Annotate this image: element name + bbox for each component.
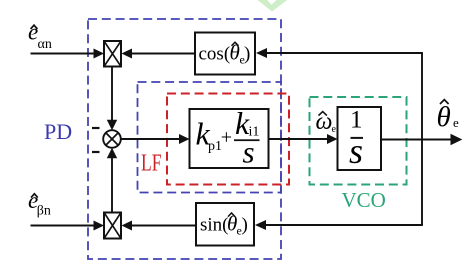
minus sign top [92,127,100,129]
wire feedback top to cos [256,48,423,58]
svg-text:s: s [243,135,255,170]
multiplier M2 (bottom mixer) [104,213,121,239]
svg-text:sin(: sin( [200,215,229,236]
svg-text:cos(: cos( [199,44,231,65]
input label e_alpha_n [28,20,52,52]
block LF kp1+ki1/s [190,105,269,170]
svg-text:1: 1 [350,107,363,134]
wire input beta [31,221,105,231]
box PD inner (blue dashed) [138,82,282,193]
block cos [195,33,255,75]
svg-text:e: e [453,115,459,130]
wire input alpha [31,49,105,59]
svg-text:LF: LF [141,151,162,177]
label LF [141,151,162,177]
wire LF to integrator [269,134,338,144]
svg-text:e: e [332,124,337,135]
summing junction [103,130,121,148]
block sin [196,203,254,246]
wire cos to M1 [122,49,196,59]
wire output [381,134,462,145]
box PD (outer blue dashed) [88,19,281,259]
svg-text:αn: αn [38,37,52,52]
multiplier M1 (top mixer) [104,41,121,67]
box LF (red dashed) [167,94,289,185]
wire M1 to summer [107,67,117,131]
input label e_beta_n [28,188,51,219]
watermark check [256,0,288,12]
box VCO (green dashed) [310,97,407,185]
svg-text:θ: θ [437,101,451,133]
label omega_e [316,109,337,135]
label VCO [342,188,386,212]
svg-text:s: s [349,131,363,171]
wire summer to LF [121,134,190,144]
label PD [44,119,72,144]
svg-text:θ: θ [230,41,240,65]
wire feedback vertical [421,53,423,225]
block integrator 1/s [338,107,382,171]
wire feedback bottom to sin [255,220,423,230]
svg-text:): ) [244,44,250,65]
svg-text:): ) [242,215,248,236]
svg-text:VCO: VCO [342,188,386,212]
wire sin to M2 [122,221,197,231]
svg-text:βn: βn [37,204,51,219]
svg-text:PD: PD [44,119,72,144]
label theta_e output [437,100,460,133]
minus sign bottom [92,151,100,153]
wire M2 to summer [107,148,117,213]
svg-text:+: + [221,127,232,149]
